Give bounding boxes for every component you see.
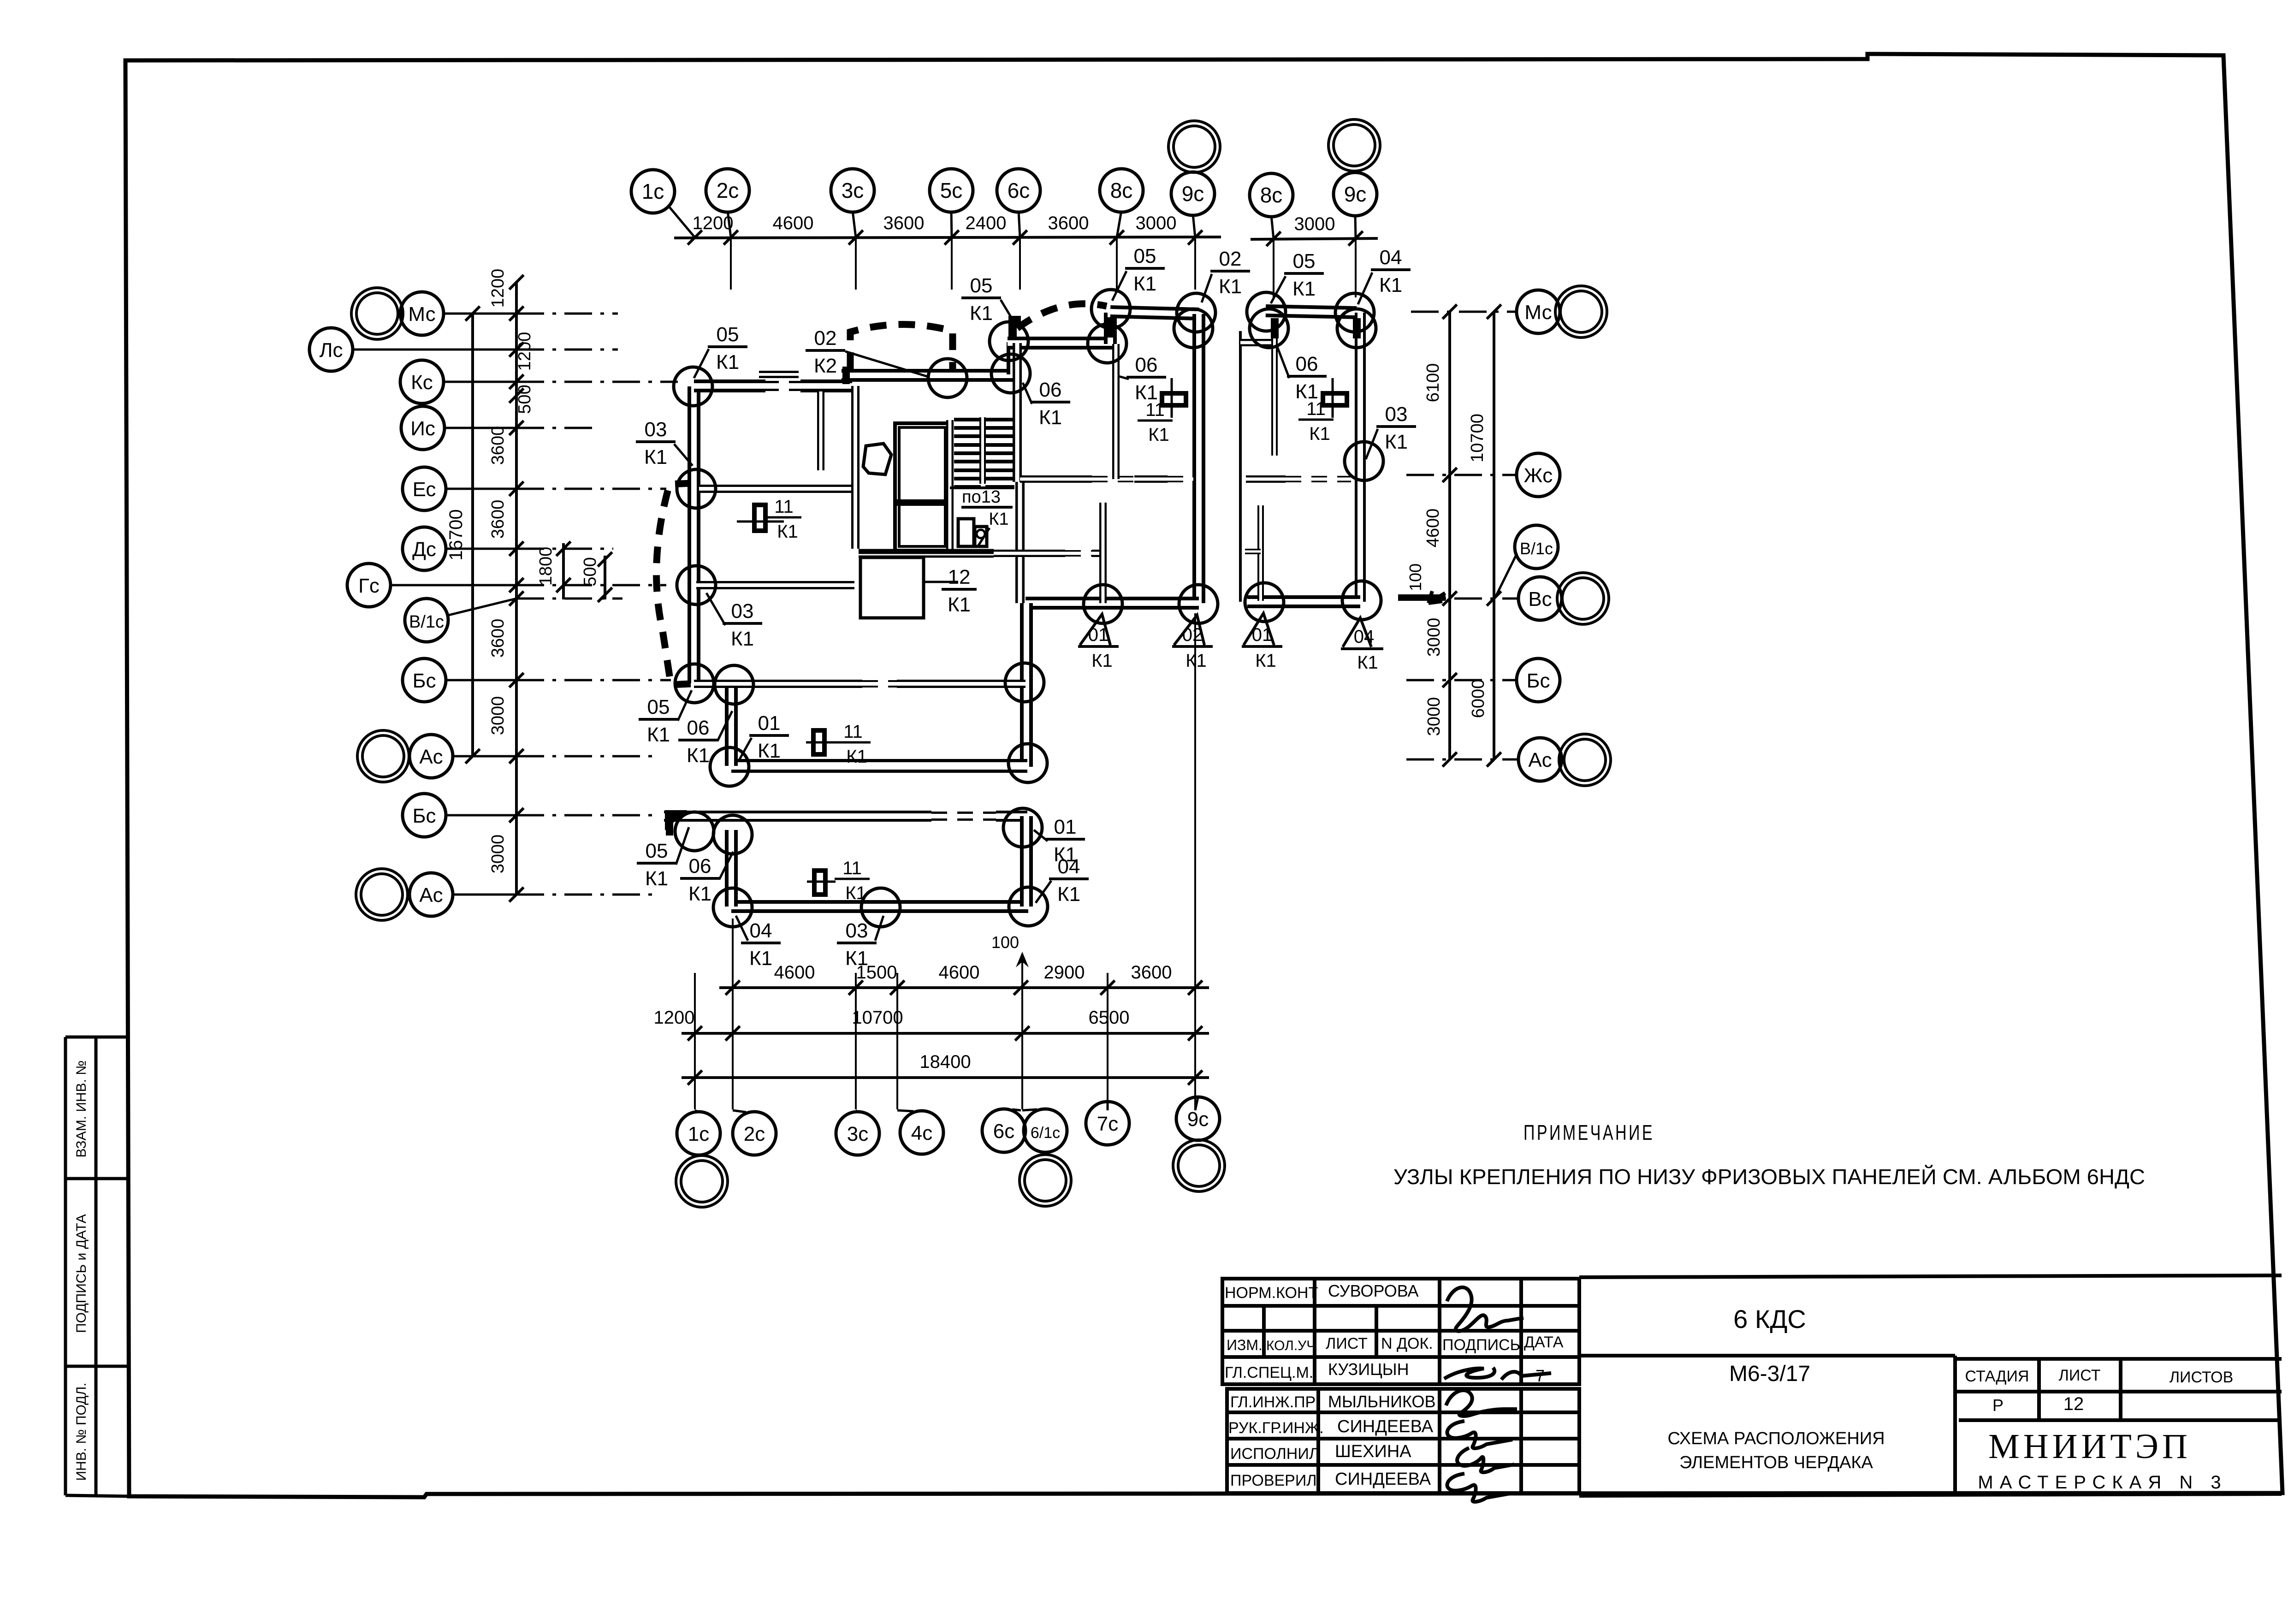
- black panel mark at 8с step: [1106, 317, 1114, 338]
- svg-text:11: 11: [774, 497, 794, 517]
- leader axis 5с top: [951, 211, 952, 237]
- label 05/К1 row Бс: [639, 696, 678, 746]
- signature Кузицын: [1444, 1368, 1551, 1380]
- svg-text:04: 04: [1058, 855, 1080, 878]
- axis bubble Ас left: [409, 735, 453, 778]
- axis line down 2с: [732, 919, 734, 1109]
- tick top dim x=1507: [688, 230, 702, 244]
- svg-text:N ДОК.: N ДОК.: [1381, 1335, 1433, 1352]
- tick left dim y=1940: [509, 887, 523, 901]
- axis bubble Гс left: [347, 563, 391, 607]
- svg-text:СУВОРОВА: СУВОРОВА: [1328, 1281, 1419, 1300]
- label 01/К1 row Ас: [749, 712, 789, 762]
- corridor slab thick y1196: [859, 549, 994, 554]
- axis stub x=2064: [951, 238, 953, 290]
- node circle 29: [1003, 808, 1042, 847]
- Бс interior wall dashed part: [862, 680, 897, 688]
- tick left dim y=680: [509, 306, 523, 320]
- signature Шехина: [1457, 1448, 1514, 1472]
- tick right dim2 y=1298: [1487, 591, 1501, 605]
- svg-text:7: 7: [1535, 1366, 1545, 1385]
- svg-text:В/1с: В/1с: [1520, 539, 1553, 558]
- unit2 top wall: [1266, 311, 1357, 313]
- svg-text:05: 05: [1293, 250, 1316, 273]
- svg-text:РУК.ГР.ИНЖ.: РУК.ГР.ИНЖ.: [1228, 1419, 1324, 1437]
- svg-text:К1: К1: [644, 446, 667, 468]
- black joint at bay wall left end: [842, 367, 850, 384]
- stair left wall: [946, 420, 954, 551]
- node circle 12: [1337, 309, 1376, 348]
- svg-text:02: 02: [814, 327, 837, 350]
- axis dash-dot Кс left: [516, 381, 678, 383]
- outer wall top-left segment b: [800, 379, 852, 392]
- svg-text:10700: 10700: [1468, 414, 1487, 462]
- svg-text:2900: 2900: [1044, 962, 1085, 983]
- svg-text:500: 500: [515, 385, 534, 414]
- label 01/К1 lower right: [1045, 816, 1085, 866]
- svg-text:3000: 3000: [488, 696, 508, 735]
- bottom wall centre part: [1025, 597, 1199, 610]
- lift shaft room: [895, 423, 949, 551]
- left dashed bracket: [657, 483, 692, 685]
- axis dash-dot Ас2 left: [516, 894, 659, 896]
- svg-text:К2: К2: [814, 355, 837, 377]
- svg-text:Вс: Вс: [1528, 588, 1552, 610]
- leader Бс left y=1768: [446, 814, 516, 817]
- element 11/К1 lower-block: [814, 871, 825, 895]
- svg-text:1500: 1500: [856, 962, 897, 983]
- black panel mark unit2 right: [1353, 318, 1361, 338]
- svg-text:1200: 1200: [488, 269, 508, 308]
- svg-text:Ас: Ас: [1528, 749, 1552, 771]
- svg-text:ЭЛЕМЕНТОВ ЧЕРДАКА: ЭЛЕМЕНТОВ ЧЕРДАКА: [1679, 1453, 1873, 1472]
- axis bubble 6с bottom: [982, 1109, 1025, 1152]
- element 11/К1 unit2: [1323, 393, 1347, 405]
- tick left dim y=1768: [509, 808, 523, 822]
- double bubble below 9с: [1173, 1140, 1225, 1191]
- axis line down 7с: [1107, 973, 1108, 1109]
- axis bubble 3с top: [831, 169, 874, 212]
- leader Вс right y=1298: [1406, 598, 1518, 600]
- tick bottom row1 x=1856: [848, 980, 863, 995]
- axis line down 6/1с: [1021, 961, 1023, 1109]
- tick bottom row1 x=2214: [1014, 980, 1028, 995]
- svg-text:5с: 5с: [940, 178, 963, 202]
- label 05/К1 top-left: [708, 323, 747, 373]
- svg-text:6500: 6500: [1089, 1008, 1130, 1028]
- svg-text:01: 01: [758, 712, 781, 735]
- corridor wall y1200 b: [994, 550, 1065, 557]
- tick bottom row1 x=1946: [890, 980, 904, 995]
- axis bubble Лс left: [309, 328, 353, 371]
- svg-text:М6-3/17: М6-3/17: [1729, 1362, 1810, 1386]
- svg-text:12: 12: [948, 566, 971, 588]
- label 06/К1 lower block: [680, 855, 720, 905]
- svg-text:03: 03: [645, 418, 667, 441]
- label 03/К1 under lower block: [837, 919, 877, 970]
- svg-text:К1: К1: [716, 351, 739, 373]
- tick 1800 a: [556, 541, 570, 556]
- stair right wall / 6с upper: [1013, 343, 1022, 482]
- svg-text:К1: К1: [687, 744, 710, 767]
- svg-text:К1: К1: [1295, 380, 1318, 403]
- svg-text:1с: 1с: [642, 179, 664, 203]
- axis bubble 2с bottom: [733, 1112, 776, 1155]
- axis bubble Жс right: [1517, 453, 1560, 497]
- leader bottom 9с: [1195, 1097, 1198, 1110]
- svg-text:ВЗАМ. ИНВ. №: ВЗАМ. ИНВ. №: [74, 1061, 89, 1158]
- svg-text:4600: 4600: [773, 213, 814, 233]
- axis stub x=1585: [730, 238, 732, 290]
- svg-text:2с: 2с: [744, 1123, 765, 1145]
- wc fixtures: [958, 519, 974, 546]
- unit2 inner wall x2734: [1257, 505, 1264, 601]
- door opening top wall (dashed): [763, 381, 801, 391]
- axis dash-dot Вс left: [516, 598, 622, 600]
- tick bottom row3 b: [1188, 1070, 1202, 1085]
- svg-text:НОРМ.КОНТ: НОРМ.КОНТ: [1225, 1284, 1318, 1302]
- left step wall (06): [725, 685, 738, 766]
- stair mid divider: [979, 417, 986, 484]
- svg-text:К1: К1: [777, 522, 798, 542]
- svg-text:по13: по13: [962, 487, 1001, 507]
- axis line down 1с: [694, 973, 696, 1109]
- svg-text:Р: Р: [1992, 1396, 2004, 1415]
- svg-text:ПОДПИСЬ и ДАТА: ПОДПИСЬ и ДАТА: [74, 1214, 89, 1333]
- extra bubble above 9с (first): [1168, 121, 1220, 172]
- tick right dim1 y=1298: [1442, 591, 1457, 605]
- bottom wall left part: [731, 759, 1027, 773]
- shaft divider: [897, 499, 948, 506]
- top wall right (to 9с): [1110, 312, 1199, 314]
- axis bubble 5с top: [930, 169, 973, 212]
- svg-text:К1: К1: [1385, 431, 1408, 453]
- unit2 mid wall y1039 dashed: [1286, 476, 1351, 482]
- label 06/К1 centre-left: [1031, 379, 1070, 429]
- node circle 17: [710, 747, 749, 786]
- axis stub 8с2: [1273, 239, 1274, 297]
- flag label 04/К1 under unit2: [1343, 618, 1371, 647]
- axis stub x=2212: [1019, 238, 1021, 290]
- interior wall x1780: [817, 391, 824, 470]
- axis stub x=1856: [855, 238, 857, 290]
- label 04/К1 lower right: [1049, 855, 1089, 906]
- axis bubble Кс left: [400, 360, 444, 403]
- corridor wall y1200 dashed: [1065, 550, 1092, 557]
- leader bottom 3с: [856, 1110, 858, 1112]
- svg-text:02: 02: [1182, 625, 1203, 645]
- leader Ис left y=928: [445, 427, 516, 429]
- dashed bracket over bay (top): [850, 324, 953, 369]
- svg-text:06: 06: [687, 717, 710, 739]
- double bubble left of Ас lower: [356, 869, 408, 920]
- black panel mark unit2 left: [1271, 318, 1279, 338]
- leader Ас right y=1647: [1406, 759, 1518, 761]
- axis stub 9с2: [1355, 239, 1357, 297]
- leader 12/К1: [925, 581, 958, 583]
- svg-text:500: 500: [581, 557, 600, 586]
- lintel piece above door: [759, 371, 799, 378]
- svg-text:СИНДЕЕВА: СИНДЕЕВА: [1335, 1470, 1431, 1489]
- svg-text:ДАТА: ДАТА: [1524, 1334, 1564, 1351]
- node circle 9: [1247, 292, 1286, 331]
- svg-text:01: 01: [1252, 625, 1273, 645]
- svg-text:06: 06: [1039, 379, 1062, 401]
- node circle 22: [1245, 583, 1284, 622]
- axis bubble 4с bottom: [900, 1111, 943, 1154]
- tick right dim2 y=676: [1487, 304, 1501, 319]
- axis bubble 1с bottom: [677, 1112, 720, 1155]
- svg-text:01: 01: [1088, 625, 1109, 645]
- node circle 4: [990, 322, 1028, 361]
- tick bottom row1 x=1589: [725, 980, 740, 995]
- leader Лс left y=758: [353, 349, 516, 351]
- tick left dim y=828: [509, 374, 523, 389]
- label 05/К1 unit2: [1284, 250, 1324, 300]
- node circle 18: [1008, 744, 1047, 782]
- label 04/К1 under lower block: [741, 919, 781, 970]
- tick 500 a: [598, 552, 612, 566]
- axis dash-dot Дс left: [516, 548, 613, 550]
- axis line down 9с: [1194, 613, 1196, 1109]
- svg-text:9с: 9с: [1344, 182, 1367, 206]
- node circle 5: [1088, 324, 1126, 363]
- title block grid: [1222, 1275, 2282, 1496]
- leader axis 1с top: [669, 206, 695, 237]
- lower block top wall a: [664, 811, 931, 822]
- interior wall x1855: [851, 386, 860, 549]
- svg-text:04: 04: [1354, 627, 1375, 647]
- node circle 20: [1084, 585, 1122, 623]
- svg-text:10700: 10700: [852, 1008, 903, 1028]
- leader Дс left y=1190: [446, 548, 516, 550]
- axis bubble Ас right: [1518, 738, 1562, 781]
- svg-text:К1: К1: [1255, 651, 1276, 671]
- svg-text:18400: 18400: [919, 1052, 971, 1072]
- double bubble left of Ас: [357, 730, 409, 782]
- leader bottom 4с: [897, 1110, 913, 1111]
- svg-text:4600: 4600: [1423, 509, 1443, 548]
- signature Мыльников: [1446, 1390, 1517, 1416]
- svg-text:Жс: Жс: [1524, 464, 1553, 487]
- label 05/К1 at 6с: [961, 274, 1001, 325]
- node circle 24: [1345, 442, 1383, 480]
- svg-text:СИНДЕЕВА: СИНДЕЕВА: [1337, 1417, 1434, 1436]
- axis dash-dot Ес left: [516, 488, 666, 490]
- svg-text:1200: 1200: [693, 213, 734, 233]
- tick left dim y=1475: [509, 673, 523, 687]
- left dim line 16700: [471, 314, 474, 756]
- svg-text:3000: 3000: [1294, 214, 1335, 234]
- svg-text:Мс: Мс: [408, 303, 435, 326]
- svg-text:ЛИСТ: ЛИСТ: [1326, 1335, 1368, 1352]
- svg-text:1200: 1200: [515, 332, 534, 371]
- svg-text:ИНВ. № ПОДЛ.: ИНВ. № ПОДЛ.: [74, 1382, 89, 1481]
- svg-text:3600: 3600: [488, 500, 508, 539]
- node circle 25: [675, 812, 714, 851]
- svg-text:03: 03: [731, 600, 754, 622]
- svg-text:Бс: Бс: [413, 805, 436, 827]
- right wall 9с axis: [1192, 314, 1205, 603]
- svg-text:МЫЛЬНИКОВ: МЫЛЬНИКОВ: [1328, 1392, 1436, 1411]
- svg-text:3000: 3000: [1424, 697, 1444, 736]
- svg-text:К1: К1: [1057, 883, 1080, 906]
- svg-text:ПРОВЕРИЛ: ПРОВЕРИЛ: [1230, 1472, 1317, 1489]
- bottom dim row2: [682, 1032, 1209, 1035]
- tick top dim 9с2: [1348, 231, 1363, 245]
- svg-text:ИЗМ.: ИЗМ.: [1227, 1337, 1263, 1353]
- svg-text:К1: К1: [846, 747, 867, 767]
- svg-text:К1: К1: [731, 628, 754, 650]
- svg-text:В/1с: В/1с: [409, 612, 444, 632]
- tick 500 b: [598, 587, 612, 602]
- tick right dim1 y=1030: [1442, 468, 1457, 482]
- axis bubble 8с top: [1100, 169, 1143, 212]
- leader bottom 7с: [1107, 1102, 1109, 1110]
- axis bubble Мс left: [400, 292, 444, 335]
- axis bubble Мс right: [1517, 290, 1560, 333]
- node circle 13: [677, 469, 716, 508]
- svg-text:К1: К1: [1219, 275, 1242, 298]
- tick top dim x=2212: [1013, 230, 1027, 244]
- double bubble below 1с: [676, 1156, 728, 1207]
- node circle 15: [675, 664, 714, 703]
- leader axis 3с top: [853, 211, 856, 237]
- svg-text:К1: К1: [1379, 274, 1402, 296]
- svg-text:05: 05: [970, 274, 993, 297]
- leader Ас left y=1640: [453, 755, 516, 758]
- label 04/К1 unit2: [1371, 246, 1411, 296]
- bay wall 02/К2: [842, 369, 1013, 382]
- leader axis 9с top: [1193, 214, 1195, 237]
- svg-text:УЗЛЫ КРЕПЛЕНИЯ ПО НИЗУ ФРИ: УЗЛЫ КРЕПЛЕНИЯ ПО НИЗУ ФРИЗОВЫХ ПАНЕЛЕЙ …: [1393, 1165, 2145, 1189]
- leader axis 2с top: [728, 211, 731, 237]
- axis bubble 3с bottom: [836, 1112, 879, 1155]
- tick left dim y=1269: [509, 578, 523, 592]
- double bubble right of Ас: [1559, 734, 1611, 786]
- element 11/К1 centre: [1162, 393, 1186, 405]
- svg-text:К1: К1: [1292, 278, 1316, 300]
- svg-text:Бс: Бс: [413, 670, 436, 692]
- tick right dim1 y=676: [1442, 304, 1457, 319]
- axis dash-dot Лс left: [516, 349, 618, 351]
- svg-text:К1: К1: [1309, 424, 1330, 444]
- leader axis 6с top: [1019, 211, 1020, 237]
- axis bubble 9с top: [1171, 172, 1215, 215]
- interior wall x2420: [1112, 344, 1120, 479]
- axis bubble Вс right: [1518, 577, 1562, 620]
- Бс interior wall a: [694, 680, 862, 688]
- node circle 10: [1250, 309, 1288, 348]
- svg-text:3600: 3600: [488, 619, 508, 658]
- unit2 inner wall x2764: [1271, 319, 1278, 456]
- svg-text:06: 06: [1296, 353, 1318, 375]
- dashed arc to node 8с: [1017, 304, 1107, 328]
- heavy corner wedge 05 lower block: [665, 810, 687, 830]
- left dim line 1800: [562, 543, 565, 599]
- axis dash-dot Бс2 left: [516, 814, 657, 817]
- svg-text:4600: 4600: [939, 962, 980, 983]
- svg-text:03: 03: [846, 919, 868, 942]
- svg-text:2400: 2400: [966, 213, 1007, 233]
- flag label 02/К1: [1174, 615, 1204, 645]
- signature Синдеева 1: [1447, 1421, 1513, 1448]
- top dimension line: [674, 237, 1221, 238]
- leader Гс left y=1269: [391, 584, 516, 587]
- leader Ес left y=1060: [446, 488, 516, 490]
- top dimension line second group: [1251, 238, 1378, 239]
- node circle 28: [861, 888, 900, 927]
- svg-text:8с: 8с: [1110, 178, 1133, 202]
- lower block left wall: [725, 830, 738, 907]
- axis bubble 9с top: [1334, 172, 1377, 216]
- svg-text:ИСПОЛНИЛ: ИСПОЛНИЛ: [1230, 1445, 1319, 1463]
- leader bottom 6с: [1012, 1109, 1021, 1110]
- label 06/К1 row Бс: [678, 717, 718, 767]
- svg-text:К1: К1: [989, 510, 1008, 529]
- svg-text:3600: 3600: [1131, 962, 1172, 983]
- axis stub x=2422: [1116, 238, 1118, 290]
- mid wall y1039 dashed b: [1168, 476, 1193, 482]
- flag label 01/К1 b: [1244, 613, 1274, 645]
- svg-text:6с: 6с: [993, 1120, 1014, 1143]
- element 11/К1 lower-main: [813, 730, 824, 754]
- axis dash-dot Ис left: [516, 427, 599, 429]
- axis dash-dot Бс left: [516, 679, 671, 682]
- double bubble right of Мс: [1555, 286, 1607, 338]
- svg-text:6с: 6с: [1008, 178, 1030, 202]
- svg-text:05: 05: [1134, 245, 1156, 267]
- mid wall y1039 b: [1134, 475, 1168, 483]
- unit2 right wall: [1355, 313, 1366, 602]
- svg-text:04: 04: [1380, 246, 1402, 269]
- mid wall y1039 a: [1020, 475, 1092, 483]
- tick left dim y=1190: [509, 541, 523, 556]
- svg-text:К1: К1: [1039, 406, 1062, 429]
- svg-text:Гс: Гс: [358, 575, 379, 597]
- tick 16700 bottom: [465, 749, 480, 763]
- node circle 26: [713, 815, 752, 854]
- left dim line 500: [604, 556, 606, 599]
- svg-text:Лс: Лс: [320, 339, 343, 362]
- svg-text:1800: 1800: [536, 547, 556, 586]
- element 11/К1 room left: [754, 505, 765, 531]
- step wall at 8с axis: [1104, 313, 1117, 344]
- svg-text:3000: 3000: [1136, 213, 1177, 233]
- label 05/К1 lower block: [637, 840, 676, 890]
- double bubble left of Мс: [351, 288, 403, 339]
- right dim line 2: [1493, 312, 1495, 759]
- label 02/К1 at 9с: [1210, 248, 1250, 298]
- svg-text:9с: 9с: [1182, 182, 1204, 206]
- svg-text:05: 05: [717, 323, 739, 346]
- svg-text:К1: К1: [845, 883, 866, 903]
- interior wall Ес y1060: [699, 485, 856, 493]
- tick top dim 8с2: [1266, 231, 1280, 246]
- axis stub x=2592: [1194, 238, 1196, 290]
- svg-text:05: 05: [646, 840, 668, 862]
- label 06/К1 unit2: [1287, 353, 1327, 403]
- axis bubble В/1с right: [1515, 525, 1558, 569]
- svg-text:6100: 6100: [1423, 363, 1443, 403]
- tick bottom row1 x=2402: [1100, 980, 1114, 995]
- tick left dim y=612: [509, 275, 523, 289]
- svg-text:МНИИТЭП: МНИИТЭП: [1988, 1427, 2191, 1466]
- svg-text:03: 03: [1385, 403, 1408, 426]
- svg-text:01: 01: [1054, 816, 1077, 838]
- corridor wall y1200 c: [1092, 550, 1103, 557]
- svg-text:3000: 3000: [488, 835, 508, 874]
